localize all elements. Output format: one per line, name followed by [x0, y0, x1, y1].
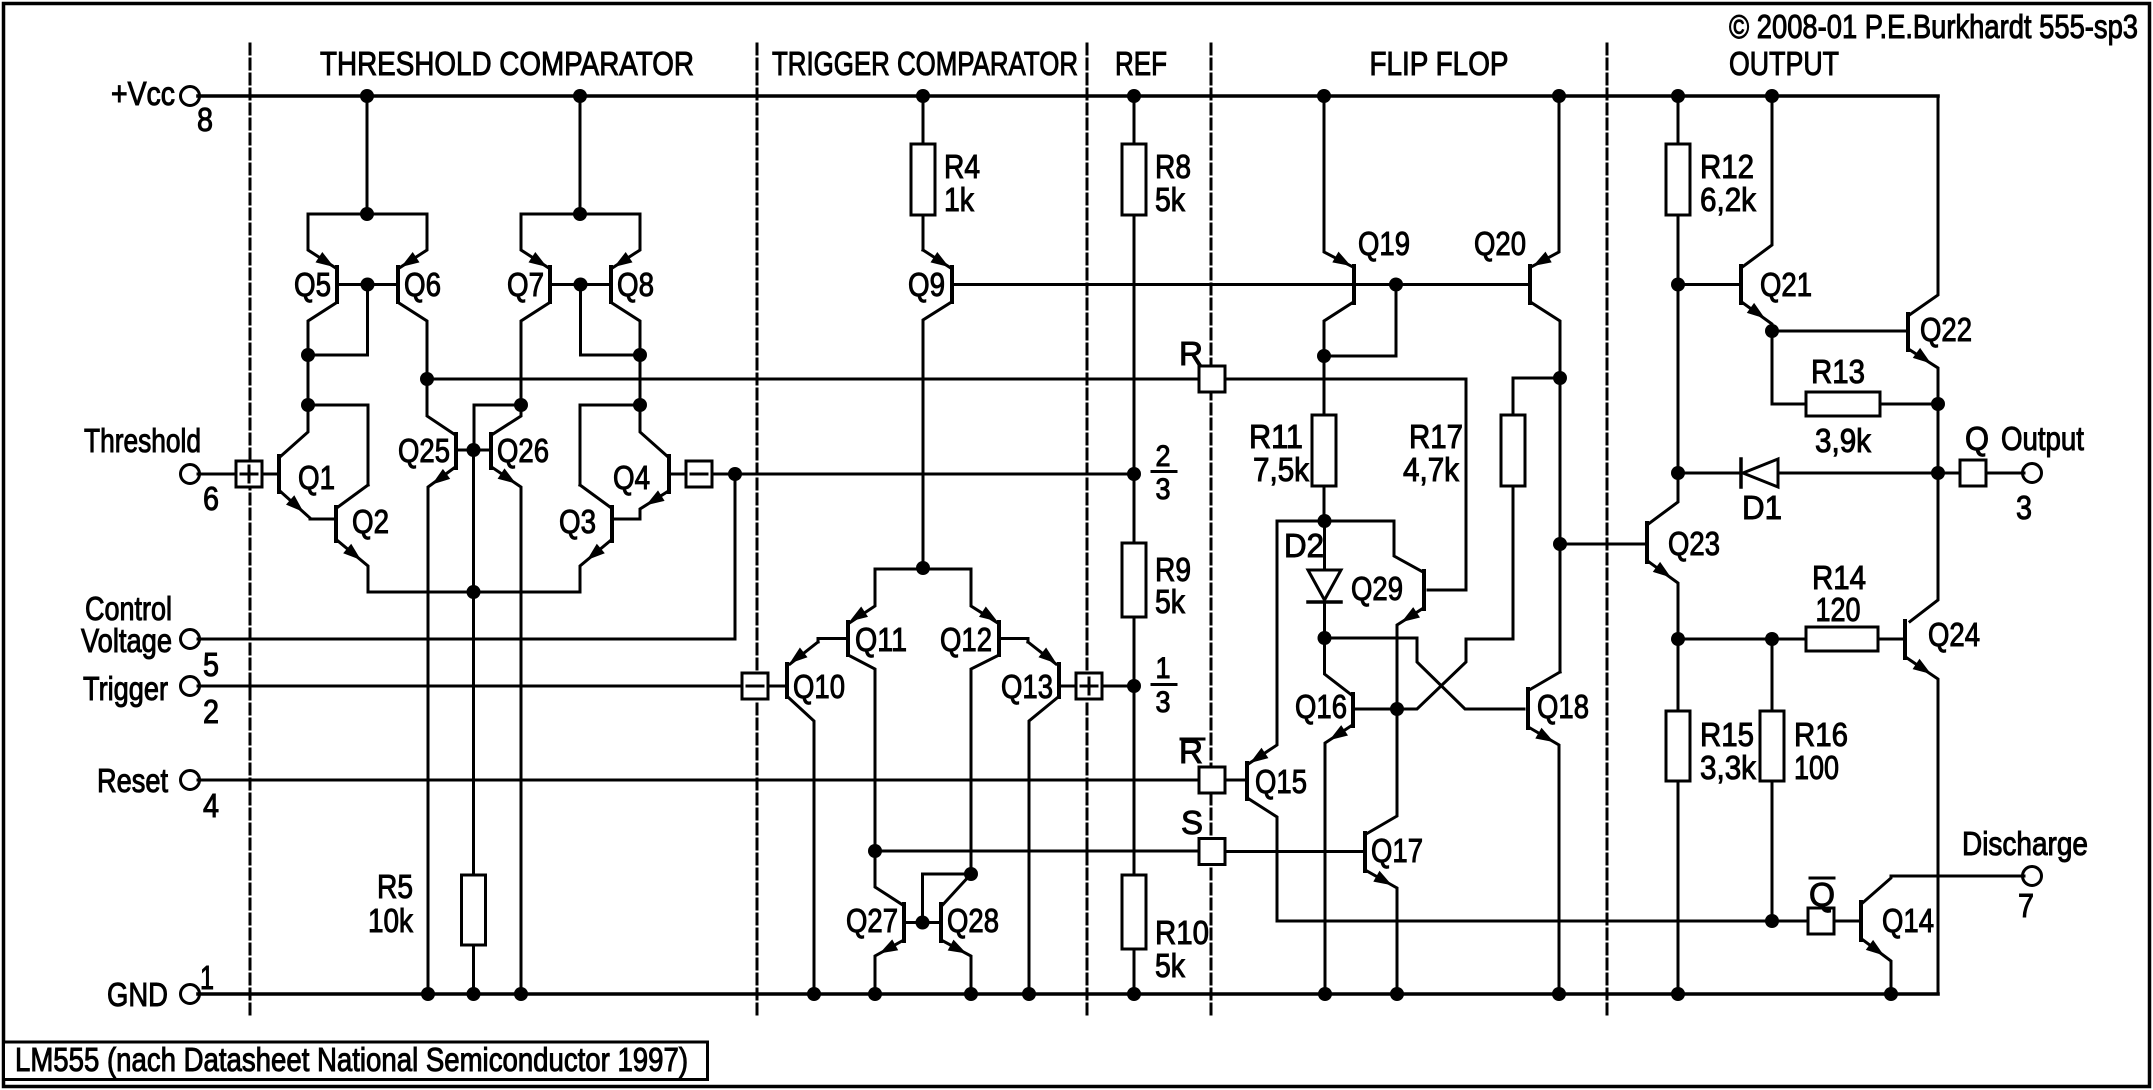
wire Q25/Q26 base down to tail rail	[472, 450, 475, 592]
node Vcc junction Q21	[1765, 89, 1779, 103]
svg-text:© 2008-01 P.E.Burkhardt 555-sp: © 2008-01 P.E.Burkhardt 555-sp3	[1729, 8, 2138, 45]
svg-text:Q9: Q9	[908, 266, 945, 303]
node Q16 base / Q29 emitter / Q17 collector junction	[1390, 702, 1404, 716]
svg-text:Discharge: Discharge	[1962, 825, 2088, 862]
node Q25/Q26 base junction	[467, 443, 481, 457]
svg-text:8: 8	[197, 101, 213, 138]
wire Control Voltage pin riser	[198, 474, 735, 639]
resistor R14	[1678, 559, 1903, 651]
node Vcc junction Q20	[1552, 89, 1566, 103]
svg-text:R11: R11	[1249, 418, 1303, 455]
transistor Q27	[846, 851, 904, 994]
resistor R4	[911, 96, 980, 250]
wire cross-couple from R17 to Q16 base node	[1397, 486, 1513, 709]
transistor Q5	[294, 214, 366, 405]
pin 3 Q Output	[2023, 464, 2042, 483]
wire R net from Q6 collector to R square	[427, 378, 1198, 381]
node GND junction R15	[1671, 987, 1685, 1001]
node Rbar square	[1199, 767, 1225, 793]
transistor Q17	[1225, 709, 1423, 994]
resistor R15	[1666, 639, 1756, 994]
resistor R13	[1806, 353, 1937, 459]
node GND junction R5	[467, 987, 481, 1001]
resistor R11	[1249, 415, 1336, 521]
wire Q square to pin 3	[1986, 472, 2024, 475]
wire S net to S square	[875, 850, 1199, 853]
wire flip-flop set node horizontal	[1277, 520, 1394, 523]
node Q21 emitter junction	[1765, 324, 1779, 338]
svg-text:1: 1	[200, 959, 214, 996]
transistor Q22	[1908, 96, 1972, 404]
node minus square threshold reference	[686, 461, 712, 487]
node R square	[1199, 366, 1225, 392]
node Q output square	[1960, 460, 1986, 486]
wire +Vcc rail	[198, 94, 1938, 98]
transistor Q1	[279, 405, 335, 519]
svg-text:Q13: Q13	[1001, 668, 1053, 705]
transistor Q29	[1351, 521, 1424, 709]
transistor Q24	[1905, 616, 1980, 994]
svg-text:GND: GND	[107, 976, 168, 1013]
node GND junction Q14	[1884, 987, 1898, 1001]
svg-text:3: 3	[2016, 489, 2032, 526]
svg-text:Q7: Q7	[507, 266, 544, 303]
transistor Q14	[1861, 876, 2024, 994]
wire GND rail	[198, 992, 1938, 996]
svg-text:Q12: Q12	[940, 621, 992, 658]
wire Vcc feed to Q7/Q8 mirror	[579, 96, 582, 214]
svg-text:6: 6	[203, 480, 219, 517]
transistor Q2	[310, 485, 389, 592]
resistor R8	[1122, 96, 1191, 474]
node GND junction Q25 emitter	[421, 987, 435, 1001]
wire Reset pin to Rbar square	[198, 779, 1199, 782]
svg-text:120: 120	[1816, 591, 1861, 628]
transistor Q13	[1001, 642, 1076, 994]
svg-text:OUTPUT: OUTPUT	[1729, 45, 1839, 82]
svg-text:Q: Q	[1965, 420, 1989, 457]
svg-text:Q28: Q28	[947, 902, 999, 939]
svg-text:3,3k: 3,3k	[1700, 749, 1756, 786]
transistor Q12	[940, 569, 1028, 874]
svg-text:Q22: Q22	[1920, 311, 1972, 348]
svg-text:R: R	[1179, 335, 1203, 372]
svg-text:Q: Q	[1809, 876, 1835, 913]
resistor R9	[1122, 474, 1191, 686]
node Qbar square	[1808, 908, 1834, 934]
svg-text:Q18: Q18	[1537, 688, 1589, 725]
node GND junction Q18	[1552, 987, 1566, 1001]
node GND junction Q26 emitter	[514, 987, 528, 1001]
svg-text:Q6: Q6	[404, 266, 441, 303]
svg-text:Q5: Q5	[294, 266, 331, 303]
svg-text:Q23: Q23	[1668, 525, 1720, 562]
node Q4 collector / Q8 collector junction	[633, 398, 647, 412]
svg-text:Q17: Q17	[1371, 832, 1423, 869]
pin 2 Trigger	[181, 677, 200, 696]
transistor Q20	[1474, 96, 1560, 672]
svg-text:3,9k: 3,9k	[1815, 422, 1871, 459]
svg-text:R17: R17	[1409, 418, 1463, 455]
svg-text:Q8: Q8	[617, 266, 654, 303]
wire Q21 emitter down to R13	[1772, 331, 1805, 404]
resistor R10	[1122, 686, 1209, 994]
svg-text:2: 2	[203, 693, 219, 730]
svg-text:Reset: Reset	[97, 762, 168, 799]
pin 7 Discharge	[2023, 867, 2042, 886]
node GND junction Q10	[807, 987, 821, 1001]
wire output node to Q square	[1938, 472, 1960, 475]
svg-text:R8: R8	[1155, 148, 1191, 185]
svg-text:5: 5	[203, 646, 219, 683]
transistor Q15	[1226, 521, 1808, 921]
transistor Q26	[491, 405, 549, 994]
svg-text:R5: R5	[377, 868, 413, 905]
svg-text:D1: D1	[1742, 489, 1782, 526]
node 1/3 Vcc	[1127, 679, 1141, 693]
node plus square threshold input	[236, 461, 262, 487]
svg-text:Voltage: Voltage	[81, 622, 172, 659]
svg-text:REF: REF	[1115, 45, 1167, 82]
svg-text:Q11: Q11	[855, 621, 907, 658]
wire Q19 base tie-down	[1324, 285, 1396, 357]
svg-text:Q1: Q1	[298, 459, 335, 496]
node 2/3 Vcc	[1127, 467, 1141, 481]
wire Q4 base to minus square	[671, 473, 686, 476]
svg-text:Q16: Q16	[1295, 688, 1347, 725]
svg-text:+Vcc: +Vcc	[111, 75, 175, 112]
node D1 anode junction	[1671, 466, 1685, 480]
svg-text:Q20: Q20	[1474, 225, 1526, 262]
node GND junction R10	[1127, 987, 1141, 1001]
svg-text:1k: 1k	[944, 181, 974, 218]
svg-text:Q2: Q2	[352, 503, 389, 540]
svg-text:Trigger: Trigger	[83, 670, 168, 707]
node R16 top junction	[1765, 632, 1779, 646]
svg-text:Q24: Q24	[1928, 616, 1980, 653]
transistor Q28	[941, 874, 999, 994]
svg-text:Q25: Q25	[398, 432, 450, 469]
svg-text:10k: 10k	[368, 902, 413, 939]
node Q20 collector to Q23 base junction	[1553, 537, 1567, 551]
node plus square trigger reference	[1076, 673, 1102, 699]
node Q12 collector junction	[964, 867, 978, 881]
svg-text:1: 1	[1156, 652, 1171, 685]
wire Q25/Q26 base link	[458, 449, 489, 452]
wire Q27/Q28 base link	[906, 921, 939, 924]
wire Q11/Q12 emitter rail	[875, 568, 971, 571]
wire Q7/Q8 emitter rail	[521, 213, 640, 216]
svg-text:D2: D2	[1284, 527, 1324, 564]
transistor Q8	[574, 214, 655, 405]
transistor Q10	[769, 642, 845, 994]
wire Q7/Q8 base tie to Q8 collector	[581, 286, 641, 355]
transistor Q19	[1324, 96, 1410, 415]
wire comparator tail rail	[368, 591, 580, 594]
wire Qbar square to Q14 base	[1834, 920, 1859, 923]
svg-text:2: 2	[1156, 440, 1171, 473]
node D2 cathode junction	[1318, 631, 1332, 645]
transistor Q6	[361, 214, 442, 379]
svg-text:3: 3	[1156, 473, 1171, 506]
svg-text:R10: R10	[1155, 914, 1209, 951]
node GND junction Q16	[1318, 987, 1332, 1001]
wire Trigger pin to minus square	[198, 685, 742, 688]
wire R12 node down to D1 anode	[1677, 285, 1680, 474]
wire Q22 emitter down to output node	[1937, 404, 1940, 473]
resistor R12	[1666, 96, 1756, 285]
svg-text:Threshold: Threshold	[84, 422, 201, 459]
svg-text:S: S	[1181, 804, 1203, 841]
section separator dashed line 5	[1606, 44, 1609, 1014]
svg-text:R12: R12	[1700, 148, 1754, 185]
diode D2	[1284, 521, 1341, 638]
svg-text:THRESHOLD COMPARATOR: THRESHOLD COMPARATOR	[320, 45, 694, 82]
transistor Q9	[908, 250, 1527, 568]
wire Threshold pin to plus square	[198, 473, 236, 476]
node output junction	[1931, 466, 1945, 480]
node GND junction Q13	[1022, 987, 1036, 1001]
node Vcc junction R4	[916, 89, 930, 103]
wire plus square to Q1 base	[262, 473, 277, 476]
svg-text:Q19: Q19	[1358, 225, 1410, 262]
svg-text:4: 4	[203, 787, 219, 824]
svg-text:TRIGGER COMPARATOR: TRIGGER COMPARATOR	[772, 45, 1078, 82]
svg-text:R13: R13	[1811, 353, 1865, 390]
svg-text:100: 100	[1794, 749, 1839, 786]
wire Q5/Q6 emitter rail	[308, 213, 427, 216]
transistor Q18	[1528, 672, 1589, 994]
wire Q21 emitter to Q22 base	[1772, 330, 1906, 333]
svg-text:Q14: Q14	[1882, 902, 1934, 939]
resistor R5	[368, 592, 486, 994]
wire Q3 collector riser to Q8 node	[580, 405, 640, 485]
title box LM555	[4, 1042, 708, 1080]
svg-text:7,5k: 7,5k	[1253, 451, 1309, 488]
svg-text:Q29: Q29	[1351, 570, 1403, 607]
wire Q1 node to Q2 collector riser	[308, 405, 368, 485]
node GND junction Q28	[964, 987, 978, 1001]
section separator dashed line 1	[249, 44, 252, 1014]
node R16 bottom junction on Qbar net	[1765, 914, 1779, 928]
svg-text:7: 7	[2018, 887, 2034, 924]
wire Q22 emitter to Q24 collector	[1910, 473, 1938, 622]
svg-text:FLIP FLOP: FLIP FLOP	[1370, 45, 1509, 82]
svg-text:R4: R4	[944, 148, 980, 185]
pin 5 Control Voltage	[181, 630, 200, 649]
transistor Q25	[398, 379, 456, 994]
wire plus square to 1/3 node	[1102, 685, 1134, 688]
svg-text:6,2k: 6,2k	[1700, 181, 1756, 218]
node GND junction Q27	[868, 987, 882, 1001]
wire cross-couple Q18 base	[1325, 638, 1525, 709]
svg-text:Q27: Q27	[846, 902, 898, 939]
resistor R16	[1760, 639, 1848, 921]
svg-text:Q15: Q15	[1255, 763, 1307, 800]
section separator dashed line 4	[1210, 44, 1213, 1014]
diode D1	[1678, 459, 1937, 526]
pin 6 Threshold	[181, 465, 200, 484]
node Q9 collector to diff pair	[916, 561, 930, 575]
svg-text:3: 3	[1156, 686, 1171, 719]
section separator dashed line 3	[1086, 44, 1089, 1014]
transistor Q23	[1560, 473, 1720, 639]
svg-text:4,7k: 4,7k	[1403, 451, 1459, 488]
svg-text:5k: 5k	[1155, 181, 1185, 218]
node minus square trigger input	[742, 673, 768, 699]
svg-text:5k: 5k	[1155, 947, 1185, 984]
transistor Q21	[1680, 96, 1812, 331]
node R13 right junction	[1931, 397, 1945, 411]
svg-text:Q26: Q26	[497, 432, 549, 469]
wire Q5/Q6 base tie to Q5 collector	[308, 286, 368, 355]
pin 8 +Vcc	[181, 87, 200, 106]
transistor Q7	[507, 214, 579, 405]
node control voltage junction	[728, 467, 742, 481]
transistor Q16	[1295, 638, 1396, 994]
pin 4 Reset	[181, 771, 200, 790]
wire Q26 collector to Q7 collector node	[474, 405, 521, 450]
svg-text:Q3: Q3	[559, 503, 596, 540]
wire Vcc feed to Q5/Q6 mirror	[366, 96, 369, 214]
transistor Q3	[559, 485, 640, 592]
svg-text:LM555 (nach Datasheet National: LM555 (nach Datasheet National Semicondu…	[15, 1041, 688, 1078]
node R17 junction on Q20 collector	[1553, 371, 1567, 385]
node Vcc junction Q19	[1317, 89, 1331, 103]
svg-text:Q4: Q4	[613, 459, 650, 496]
node S square	[1199, 839, 1225, 865]
pin 1 GND	[181, 985, 200, 1004]
wire minus square to 2/3 node	[712, 473, 1134, 476]
transistor Q4	[613, 405, 669, 519]
svg-text:Q10: Q10	[793, 668, 845, 705]
svg-text:R16: R16	[1794, 716, 1848, 753]
section separator dashed line 2	[756, 44, 759, 1014]
node R12 bottom junction	[1671, 278, 1685, 292]
node Vcc junction R12	[1671, 89, 1685, 103]
transistor Q11	[818, 569, 907, 851]
wire R net from square to Q29 base	[1225, 379, 1466, 590]
node GND junction Q17	[1390, 987, 1404, 1001]
resistor R17	[1403, 378, 1559, 488]
node Q1 emitter / Q5 collector junction	[301, 398, 315, 412]
svg-text:5k: 5k	[1155, 583, 1185, 620]
node R14 left junction	[1671, 632, 1685, 646]
svg-text:Output: Output	[2001, 420, 2084, 457]
svg-text:R15: R15	[1700, 716, 1754, 753]
node Vcc junction R8	[1127, 89, 1141, 103]
svg-text:Q21: Q21	[1760, 266, 1812, 303]
node S net junction at Q11 collector	[868, 844, 882, 858]
wire Q27/Q28 bases to Q12 collector node	[923, 874, 972, 923]
